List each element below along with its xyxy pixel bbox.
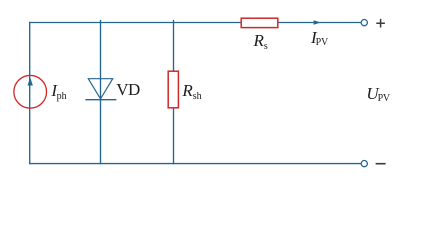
current IPV arrow head	[314, 20, 321, 24]
wire diode branch vertical	[100, 20, 102, 164]
label UPV	[366, 84, 389, 105]
wire Rsh branch vertical	[173, 20, 175, 164]
label IPV	[311, 28, 328, 48]
terminal - circle	[361, 161, 367, 167]
diode VD triangle	[88, 79, 112, 99]
label Rs	[254, 31, 268, 52]
label Rsh	[182, 81, 201, 102]
current source Iph circle	[14, 75, 47, 108]
label VD	[116, 80, 139, 100]
current source arrow head	[28, 77, 33, 85]
label Iph	[51, 81, 66, 102]
resistor Rsh body	[168, 71, 178, 108]
plus sign	[376, 19, 385, 28]
diode VD cathode bar	[85, 99, 116, 101]
resistor Rs body	[241, 18, 278, 27]
wire left vertical	[29, 22, 31, 165]
minus sign	[376, 163, 386, 165]
wire top horizontal	[29, 22, 361, 24]
wire bottom horizontal	[29, 163, 361, 165]
terminal + circle	[361, 20, 367, 26]
